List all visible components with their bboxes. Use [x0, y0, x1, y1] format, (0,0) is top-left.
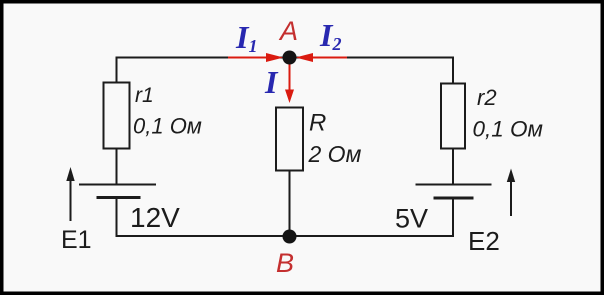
svg-text:0,1 Ом: 0,1 Ом: [473, 117, 543, 142]
battery E1 long plate: [79, 184, 156, 186]
svg-text:12V: 12V: [130, 202, 180, 233]
svg-text:A: A: [278, 16, 298, 46]
wire left vertical upper: [116, 57, 118, 84]
wire r2 to battery E2: [452, 149, 454, 185]
svg-text:E1: E1: [61, 226, 92, 254]
svg-text:r1: r1: [135, 84, 154, 107]
svg-text:I: I: [264, 64, 279, 100]
current wire I (red, below node A): [285, 62, 294, 103]
wire r1 to battery E1: [116, 149, 118, 185]
EMF arrow E1: [66, 167, 74, 221]
battery E2 short plate: [434, 197, 474, 200]
EMF arrow E2: [507, 169, 515, 217]
svg-text:E2: E2: [468, 226, 500, 256]
resistor r2: [441, 84, 465, 149]
battery E1 short plate: [97, 196, 141, 199]
svg-text:2 Ом: 2 Ом: [308, 141, 362, 167]
node B: [283, 230, 297, 244]
svg-text:B: B: [276, 248, 294, 278]
bottom wire: [117, 235, 454, 237]
resistor r1: [104, 83, 130, 149]
current wire I2 (red, right of node A): [296, 53, 348, 62]
wire right vertical upper: [452, 57, 454, 85]
wire battery E2 to bottom: [452, 198, 454, 237]
node A: [283, 51, 297, 65]
resistor R: [276, 108, 303, 171]
svg-text:R: R: [309, 110, 326, 137]
battery E2 long plate: [416, 184, 492, 186]
current wire I1 (red, left of node A): [228, 53, 284, 62]
wire battery E1 to bottom: [116, 198, 118, 238]
wire R to node B: [289, 171, 291, 237]
wire top horizontal: [117, 57, 454, 59]
svg-text:5V: 5V: [395, 204, 428, 234]
svg-text:0,1 Ом: 0,1 Ом: [133, 114, 202, 139]
svg-text:r2: r2: [477, 85, 497, 110]
